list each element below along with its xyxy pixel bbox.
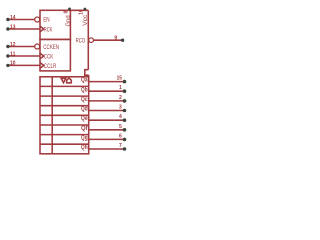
pin 15 Qa wire (89, 81, 125, 83)
svg-text:Qb: Qb (81, 86, 88, 93)
svg-text:1: 1 (119, 85, 122, 91)
row divider 5 (40, 124, 89, 126)
body top edge extension (70, 9, 88, 11)
EN inversion bubble (35, 17, 40, 22)
pin dot 6 (123, 138, 127, 142)
svg-text:Gnd: Gnd (65, 15, 72, 27)
CCK clock wedge (40, 53, 44, 59)
svg-text:Qe: Qe (81, 115, 88, 122)
svg-text:Qc: Qc (81, 96, 88, 103)
body right edge (87, 10, 89, 69)
pin 2 Qc wire (89, 100, 125, 102)
pin dot 1 (123, 89, 127, 93)
svg-text:12: 12 (10, 42, 16, 48)
pin 7 Qh wire (89, 148, 125, 150)
pin 14 EN wire (8, 19, 35, 21)
svg-text:CCLR: CCLR (44, 63, 57, 70)
svg-text:EN: EN (43, 17, 50, 24)
svg-text:CCK: CCK (44, 54, 54, 61)
CCLR clock wedge (40, 63, 44, 69)
svg-text:CCKEN: CCKEN (43, 44, 59, 51)
pin dot 12 (6, 45, 9, 48)
svg-text:RCK: RCK (44, 27, 53, 34)
svg-text:Qa: Qa (81, 77, 88, 84)
pin dot 5 (123, 128, 127, 132)
pin 5 Qf wire (89, 129, 125, 131)
pin 3 Qd wire (89, 110, 125, 112)
svg-text:Qg: Qg (81, 135, 88, 142)
RCO inversion bubble (89, 38, 94, 43)
pin dot 16 Vcc (84, 8, 87, 11)
row divider 2 (40, 95, 89, 97)
pin 11 CCK wire (8, 55, 40, 57)
pin dot 3 (123, 109, 127, 113)
svg-text:3: 3 (119, 105, 122, 111)
row divider 7 (40, 143, 89, 145)
stack vertical divider (51, 77, 53, 154)
svg-text:2: 2 (119, 95, 122, 101)
stack right edge upper stub (88, 75, 90, 77)
svg-text:Qf: Qf (81, 125, 88, 132)
pin 13 RCK wire (8, 28, 40, 30)
pin dot 2 (123, 99, 127, 103)
pin dot 14 (6, 18, 9, 21)
svg-text:13: 13 (10, 24, 16, 30)
pin dot 11 (6, 54, 9, 57)
svg-text:Qh: Qh (81, 144, 88, 151)
pin 4 Qe wire (89, 119, 125, 121)
pin dot 10 (6, 64, 9, 67)
row divider 3 (40, 105, 89, 107)
row divider 6 (40, 134, 89, 136)
pin dot 4 (123, 118, 127, 122)
tri-state house glyph (67, 78, 72, 83)
pin dot 8 Gnd (68, 7, 71, 10)
svg-text:Vcc: Vcc (82, 15, 89, 26)
pin 16 Vcc stub (84, 9, 86, 11)
pin dot 7 (123, 147, 127, 151)
pin 10 CCLR wire (8, 64, 40, 66)
IC body box 2 (CCKEN/CCK/CCLR section) (40, 39, 70, 71)
CCKEN inversion bubble (35, 44, 40, 49)
svg-text:15: 15 (117, 76, 123, 82)
pin 8 Gnd stub (69, 9, 71, 11)
pin 1 Qb wire (89, 90, 125, 92)
output stack outline (40, 77, 89, 154)
pin dot 15 (123, 80, 127, 84)
pin 12 CCKEN wire (8, 46, 35, 48)
svg-text:RCO: RCO (76, 37, 86, 44)
tri-state down triangle glyph (61, 78, 66, 82)
svg-text:11: 11 (10, 51, 16, 57)
svg-text:10: 10 (10, 61, 16, 67)
svg-text:Qd: Qd (81, 106, 88, 113)
svg-text:14: 14 (10, 15, 16, 21)
pin dot 9 RCO (121, 39, 124, 42)
svg-text:7: 7 (119, 143, 122, 149)
pin 6 Qg wire (89, 138, 125, 140)
svg-text:6: 6 (119, 133, 122, 139)
svg-text:16: 16 (79, 9, 85, 15)
notch at bottom right of top section (85, 70, 89, 76)
pin 9 RCO wire (94, 39, 123, 41)
IC body box 1 (EN/RCK section) (40, 10, 70, 39)
svg-text:5: 5 (119, 124, 122, 130)
RCK clock wedge (40, 26, 44, 32)
row divider 1 (40, 85, 89, 87)
svg-text:4: 4 (119, 114, 122, 120)
row divider 4 (40, 114, 89, 116)
pin dot 13 (6, 27, 9, 30)
